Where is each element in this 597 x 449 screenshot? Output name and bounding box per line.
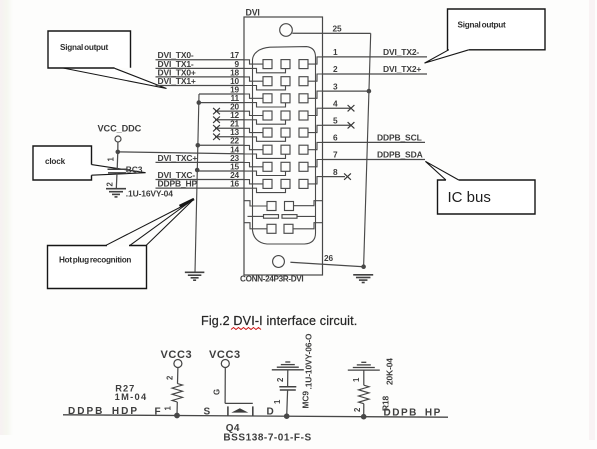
svg-text:CONN-24P3R-DVI: CONN-24P3R-DVI (240, 275, 303, 284)
wire pin 21 no-connect (215, 127, 244, 129)
svg-text:7: 7 (333, 150, 338, 160)
internal wire pin 10 (244, 86, 286, 90)
ground bus wire (left) (195, 94, 199, 272)
wire pin 18 net DVI_TX0+ (156, 76, 245, 78)
internal wire analog row1 left (244, 201, 267, 206)
internal wire pin 19 (244, 94, 263, 98)
wire power bar to R18 (363, 370, 365, 385)
svg-text:25: 25 (333, 24, 342, 34)
svg-text:1M-04: 1M-04 (115, 392, 148, 402)
internal wire blade right (297, 215, 316, 217)
connector analog contact square C-row1 right (285, 202, 294, 211)
internal wire pin 11 (244, 103, 286, 107)
wire pin 22 to ground bus (198, 144, 244, 146)
junction VCC_DDC / pin14 wire (116, 150, 121, 155)
svg-text:.1U-10VY-06-O: .1U-10VY-06-O (304, 333, 314, 390)
wire VCC3 to R27 (177, 368, 179, 384)
internal wire pin 7 (308, 160, 323, 167)
internal wire pin 1 (308, 57, 323, 64)
junction pin 22 / ground bus (196, 143, 201, 148)
no-connect X pin 5 (348, 122, 355, 128)
wire pin 3 to ground bus (323, 90, 369, 92)
svg-text:13: 13 (230, 127, 239, 137)
VCC3 terminal circle (Q4 gate) (221, 360, 229, 368)
resistor R18 20K-04 (359, 385, 369, 404)
connector contact square row 3 col1 (pin 19) (263, 94, 272, 103)
svg-text:DVI: DVI (246, 8, 260, 18)
svg-text:20K-04: 20K-04 (385, 358, 395, 385)
connector contact square row 2 col2 (pin 10) (281, 77, 290, 86)
svg-text:VCC_DDC: VCC_DDC (98, 124, 142, 134)
svg-text:Fig.2 DVI-I interface circuit.: Fig.2 DVI-I interface circuit. (201, 314, 357, 328)
wire pin 11 to ground bus (199, 102, 244, 104)
callout box IC bus (425, 161, 535, 214)
svg-text:DDPB_HDP: DDPB_HDP (68, 406, 139, 417)
internal wire pin 2 (308, 74, 323, 81)
internal wire analog row2 right (293, 223, 323, 229)
VCC3 terminal circle (R27) (174, 360, 182, 368)
svg-text:DVI_TX2+: DVI_TX2+ (383, 64, 421, 74)
internal wire pin 4 (308, 108, 323, 115)
bottom net wire DDPB_HDP to DDPB_HP (63, 415, 448, 417)
internal wire pin 6 (308, 142, 323, 149)
svg-text:Signaloutput: Signaloutput (60, 43, 109, 52)
wire pin 2 net DVI_TX2+ (323, 73, 428, 75)
svg-text:DVI_TX1+: DVI_TX1+ (158, 76, 196, 86)
svg-text:DDPB_HP: DDPB_HP (384, 408, 442, 419)
wire pin 16 net DDPB_HP (156, 187, 245, 189)
svg-text:.1U-16VY-04: .1U-16VY-04 (126, 188, 173, 198)
connector contact square row 4 col2 (pin 12) (281, 111, 290, 120)
wire pin 14 net VCC_DDC (118, 152, 244, 154)
wire pin 26 to ground bus (290, 262, 363, 266)
wire pin 19 to ground bus (199, 93, 244, 95)
wire MC9 to net (286, 390, 289, 416)
wire pin 10 net DVI_TX1+ (156, 85, 245, 87)
wire power bar to MC9 (287, 370, 289, 387)
svg-text:F: F (155, 406, 161, 417)
internal wire pin 13 (244, 137, 286, 141)
connector contact square row 1 col3 (pin 1) (299, 60, 308, 69)
internal wire pin 22 (244, 145, 263, 149)
wire R18 to net (363, 404, 365, 417)
wire pin 13 no-connect (215, 136, 244, 138)
connector contact square row 7 col2 (pin 15) (281, 162, 290, 171)
wire pin 24 net DVI_TXC- (156, 179, 245, 181)
ground symbol (BC3) (106, 189, 126, 197)
wire pin 4 no-connect (323, 107, 351, 109)
connector contact square row 3 col3 (pin 3) (299, 94, 308, 103)
wire R27 to DDPB_HDP net (176, 402, 178, 416)
svg-text:4: 4 (333, 98, 338, 108)
junction R27 / DDPB_HDP wire (174, 413, 180, 419)
connector contact square row 4 col1 (pin 20) (263, 111, 272, 120)
svg-text:26: 26 (324, 253, 333, 263)
svg-text:BC3: BC3 (126, 164, 143, 174)
junction pin 15 / ground bus (195, 168, 200, 173)
svg-text:DDPB_SDA: DDPB_SDA (377, 150, 423, 160)
connector contact square row 8 col3 (pin 8) (299, 179, 308, 188)
svg-text:DVI_TXC+: DVI_TXC+ (158, 153, 198, 163)
wire VCC_DDC to junction (117, 142, 119, 152)
no-connect X pin 20 (213, 108, 220, 114)
internal wire pin 16 (244, 188, 286, 192)
connector contact square row 8 col2 (pin 16) (281, 179, 290, 188)
wire pin 15 to ground bus (197, 170, 244, 172)
svg-text:Hotplugrecognition: Hotplugrecognition (59, 256, 131, 265)
junction pin 3 / ground bus (367, 89, 372, 94)
callout box clock (33, 146, 146, 180)
connector contact square row 1 col1 (pin 17) (263, 60, 272, 69)
connector pin-field shield outline (253, 47, 316, 244)
no-connect X pin 12 (213, 117, 220, 123)
svg-text:DDPB_HP: DDPB_HP (158, 179, 198, 189)
svg-text:MC9: MC9 (301, 391, 311, 409)
no-connect X pin 4 (348, 105, 355, 111)
connector contact square row 5 col1 (pin 21) (263, 128, 272, 137)
svg-text:8: 8 (333, 167, 338, 177)
capacitor BC3 plates (108, 168, 128, 170)
svg-text:S: S (204, 406, 211, 417)
internal wire pin 20 (244, 111, 263, 115)
no-connect X pin 8 (344, 173, 351, 179)
wire VCC3 to Q4 gate (224, 368, 226, 404)
junction R18 / net wire (361, 414, 367, 420)
wire BC3 to ground (115, 173, 118, 189)
internal wire pin 9 (244, 68, 286, 72)
junction pin 11 / ground bus (197, 100, 202, 105)
ground symbol (right bus) (353, 275, 373, 283)
internal wire pin 23 (244, 163, 263, 167)
svg-text:16: 16 (230, 179, 239, 189)
svg-text:DVI_TX2-: DVI_TX2- (383, 47, 419, 57)
power bar symbol (MC9) (272, 362, 304, 370)
wire junction to capacitor BC3 (116, 152, 119, 169)
callout box Signal output (left) (48, 31, 167, 89)
spellcheck squiggle under DVI-I (231, 328, 261, 330)
connector analog contact square C-row1 left (267, 202, 276, 211)
svg-text:1: 1 (333, 47, 338, 57)
wire pin 8 no-connect (323, 176, 346, 178)
connector contact square row 1 col2 (pin 9) (281, 60, 290, 69)
callout box Signal output (right) (425, 9, 546, 63)
connector blade contact right (282, 215, 297, 219)
ground symbol (left bus) (185, 272, 205, 280)
svg-text:BSS138-7-01-F-S: BSS138-7-01-F-S (223, 433, 311, 444)
internal wire pin 15 (244, 171, 286, 175)
internal wire analog row2 left (244, 223, 267, 229)
svg-text:2: 2 (333, 64, 338, 74)
connector contact square row 4 col3 (pin 4) (299, 111, 308, 120)
connector contact square row 7 col1 (pin 23) (263, 162, 272, 171)
internal wire pin 8 (308, 177, 323, 184)
pin 26 mounting hole circle (273, 256, 285, 268)
wire pin 1 net DVI_TX2- (323, 56, 428, 58)
internal wire pin 3 (308, 91, 323, 98)
wire pin 20 no-connect (215, 110, 244, 112)
no-connect X pin 21 (213, 125, 220, 131)
connector contact square row 6 col3 (pin 6) (299, 145, 308, 154)
internal wire pin 14 (244, 154, 286, 158)
svg-text:6: 6 (333, 133, 338, 143)
transistor Q4 BSS138-7-01-F-S (N-MOSFET) (225, 403, 253, 416)
svg-text:23: 23 (230, 153, 239, 163)
internal wire pin 18 (244, 77, 263, 81)
wire pin 17 net DVI_TX0- (156, 59, 245, 61)
wire pin 6 net DDPB_SCL (323, 141, 426, 143)
wire pin 12 no-connect (215, 119, 244, 121)
no-connect X pin 13 (213, 134, 220, 140)
svg-text:IC bus: IC bus (448, 189, 491, 206)
power bar symbol (R18) (348, 362, 380, 370)
connector contact square row 2 col3 (pin 2) (299, 77, 308, 86)
internal wire pin 21 (244, 128, 263, 132)
svg-text:3: 3 (333, 81, 338, 91)
callout box Hot plug recognition (48, 199, 195, 289)
junction MC9 / net wire (284, 413, 290, 419)
VCC_DDC terminal circle (115, 136, 121, 142)
svg-text:5: 5 (333, 116, 338, 126)
ground bus wire (right) (364, 33, 371, 267)
connector contact square row 5 col2 (pin 13) (281, 128, 290, 137)
pin 25 mounting hole circle (280, 24, 293, 37)
wire pin 9 net DVI_TX1- (156, 67, 245, 69)
connector contact square row 3 col2 (pin 11) (281, 94, 290, 103)
wire pin 23 net DVI_TXC+ (156, 161, 245, 163)
connector contact square row 6 col1 (pin 22) (263, 145, 272, 154)
svg-text:clock: clock (45, 157, 66, 166)
svg-text:G: G (213, 389, 222, 395)
capacitor MC9 plates (279, 386, 296, 388)
svg-text:D: D (267, 407, 274, 418)
connector contact square row 7 col3 (pin 7) (299, 162, 308, 171)
internal wire pin 5 (308, 125, 323, 132)
internal wire analog row1 right (294, 201, 323, 206)
internal wire blade left (248, 215, 264, 217)
connector contact square row 6 col2 (pin 14) (281, 145, 290, 154)
connector U1 CONN-24P3R-DVI outer body (244, 17, 323, 275)
internal wire pin 12 (244, 120, 286, 124)
connector analog contact square C-row2 right (284, 224, 293, 233)
connector blade contact left (264, 215, 279, 219)
internal wire pin 24 (244, 180, 263, 184)
wire pin 5 no-connect (323, 124, 351, 126)
resistor R27 1M-04 (172, 384, 182, 403)
wire pin 7 net DDPB_SDA (323, 159, 426, 161)
wire pin 25 to ground bus (292, 32, 370, 34)
connector analog contact square C-row2 left (267, 224, 276, 233)
connector contact square row 5 col3 (pin 5) (299, 128, 308, 137)
internal wire pin 17 (244, 60, 263, 64)
connector contact square row 8 col1 (pin 24) (263, 179, 272, 188)
connector contact square row 2 col1 (pin 18) (263, 77, 272, 86)
svg-text:Signaloutput: Signaloutput (458, 21, 507, 30)
junction pin 26 / ground bus (361, 264, 366, 269)
svg-text:DDPB_SCL: DDPB_SCL (377, 133, 422, 143)
